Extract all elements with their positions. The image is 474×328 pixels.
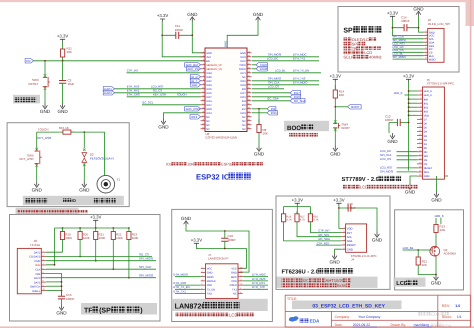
svg-text:IO25: IO25 xyxy=(206,88,212,91)
svg-text:10: 10 xyxy=(202,86,204,89)
svg-text:100nF: 100nF xyxy=(175,28,184,32)
svg-text:100K: 100K xyxy=(132,236,139,240)
svg-text:RXD0: RXD0 xyxy=(239,68,246,71)
svg-text:28: 28 xyxy=(248,98,250,101)
svg-text:6: 6 xyxy=(203,70,204,73)
wire I2C_SCL row xyxy=(142,104,201,106)
svg-text:RXD: RXD xyxy=(207,284,213,287)
wire CLK to SPI_CLK xyxy=(46,268,156,270)
wire R14 to SW4 xyxy=(334,103,336,118)
svg-text:IO34: IO34 xyxy=(206,72,212,75)
svg-text:+3.3V: +3.3V xyxy=(387,11,398,16)
svg-text:GND: GND xyxy=(254,152,265,157)
svg-text:GND: GND xyxy=(206,52,212,55)
svg-text:1: 1 xyxy=(203,50,204,53)
wire LCD_RST row xyxy=(115,88,201,90)
svg-text:5: 5 xyxy=(203,66,204,69)
svg-text:GND: GND xyxy=(40,109,51,114)
svg-text:SPI_MISO: SPI_MISO xyxy=(393,55,407,59)
svg-text:+3.3V: +3.3V xyxy=(90,215,101,220)
capacitor C12 100nF xyxy=(389,122,409,124)
svg-text:29: 29 xyxy=(248,94,250,97)
wire C12 gnd xyxy=(388,123,390,134)
wire rail branch xyxy=(309,207,311,215)
resistor R17 4.7K xyxy=(296,211,298,225)
capacitor C11 100nF xyxy=(162,34,192,36)
svg-text:+3.3V: +3.3V xyxy=(330,74,341,79)
svg-text:LED_A: LED_A xyxy=(424,90,432,93)
svg-text:IO: IO xyxy=(72,198,77,203)
svg-text:+3.3V: +3.3V xyxy=(333,198,344,203)
svg-text:6: 6 xyxy=(202,287,203,290)
svg-text:FT6236U - 2.0: FT6236U - 2.0 xyxy=(282,269,319,276)
svg-text:Sheet:: Sheet: xyxy=(442,315,452,319)
svg-text:GND: GND xyxy=(405,190,416,195)
svg-text:GND: GND xyxy=(253,12,264,17)
sheet border right xyxy=(466,0,474,26)
svg-text:1: 1 xyxy=(420,89,421,92)
svg-text:1: 1 xyxy=(43,250,44,253)
svg-text:EDA·: EDA· xyxy=(431,312,441,317)
svg-text:DAT2: DAT2 xyxy=(34,251,41,254)
svg-text:LED_K: LED_K xyxy=(424,94,432,97)
svg-text:ETH_TX1: ETH_TX1 xyxy=(174,289,187,293)
svg-text:2: 2 xyxy=(343,230,344,233)
svg-text:LCD_CS: LCD_CS xyxy=(380,157,391,161)
svg-text:+3.3V: +3.3V xyxy=(157,13,168,18)
svg-text:7: 7 xyxy=(203,74,204,77)
svg-text:IO2: IO2 xyxy=(242,108,247,111)
svg-text:13: 13 xyxy=(240,270,242,273)
svg-text:4.7K: 4.7K xyxy=(286,219,292,222)
note SPI line1 xyxy=(344,37,348,41)
svg-text:D3: D3 xyxy=(424,135,428,138)
wire gnd2 L xyxy=(227,22,258,48)
label touch key xyxy=(94,198,99,203)
wire LCD_BL to J6 xyxy=(393,55,424,57)
svg-text:BOOT: BOOT xyxy=(342,126,351,130)
capacitor C15 100nF xyxy=(61,291,63,305)
wire CMD to SPI_MOSI xyxy=(46,260,156,262)
svg-text:40MHz: 40MHz xyxy=(369,55,382,60)
wire LCD_CS to J6 xyxy=(393,51,424,53)
svg-text:IO13: IO13 xyxy=(206,112,212,115)
svg-text:GND: GND xyxy=(187,12,198,17)
svg-text:NC: NC xyxy=(206,116,210,119)
block box: FT6236 xyxy=(276,196,390,289)
svg-text:FT6236-2.0-IC-FPC: FT6236-2.0-IC-FPC xyxy=(351,254,377,258)
note ST7789 xyxy=(343,185,347,189)
svg-text:(SPI: (SPI xyxy=(99,307,113,315)
wire ETH_TX1 xyxy=(175,293,201,295)
svg-text:16: 16 xyxy=(419,149,421,152)
svg-text:20: 20 xyxy=(202,126,204,129)
svg-text:+3.3V: +3.3V xyxy=(57,34,68,39)
resistor R23 100K xyxy=(128,228,130,243)
svg-text:4: 4 xyxy=(202,279,203,282)
svg-text:LED_K: LED_K xyxy=(435,214,444,218)
svg-text:11: 11 xyxy=(202,90,204,93)
svg-text:SENSOR_VP: SENSOR_VP xyxy=(206,64,222,67)
svg-text:DAC2: DAC2 xyxy=(104,91,112,95)
transistor Q2 AO3400A xyxy=(435,239,437,245)
net flag LED xyxy=(191,83,201,87)
wire rail branch xyxy=(283,207,285,215)
wire R18 drop xyxy=(284,225,342,241)
svg-text:10: 10 xyxy=(43,288,45,291)
svg-text:35: 35 xyxy=(248,70,250,73)
svg-text:5: 5 xyxy=(202,283,203,286)
note SPI line4 xyxy=(344,51,348,55)
svg-text:D5: D5 xyxy=(424,127,428,130)
ground (J5 b) xyxy=(434,192,439,198)
switch SW4 BOOT xyxy=(334,118,336,133)
svg-text:24: 24 xyxy=(248,114,250,117)
sheet border top xyxy=(0,0,474,2)
svg-text:IO2: IO2 xyxy=(166,163,172,167)
svg-text:IO17: IO17 xyxy=(240,92,246,95)
svg-text:SPI_CLK: SPI_CLK xyxy=(139,265,151,269)
svg-text:1: 1 xyxy=(426,30,427,33)
svg-text:100K: 100K xyxy=(99,236,106,240)
wire rail to pin xyxy=(409,98,417,100)
svg-text:17: 17 xyxy=(419,153,421,156)
ground (Q2) xyxy=(434,275,439,281)
svg-text:03_ESP32_LCD_ETH_SD_KEY: 03_ESP32_LCD_ETH_SD_KEY xyxy=(312,304,385,310)
svg-text:IO32: IO32 xyxy=(206,80,212,83)
net flag ADC_BAT xyxy=(185,63,201,67)
wire SW5 to gnd xyxy=(36,169,38,182)
svg-text:26: 26 xyxy=(248,106,250,109)
svg-text:GND: GND xyxy=(158,125,169,130)
wire SPI_MISO/ETH_TX0 row xyxy=(252,80,319,82)
svg-text:IM0: IM0 xyxy=(424,98,429,101)
svg-text:TXD: TXD xyxy=(207,293,212,296)
svg-text:KEY_USR: KEY_USR xyxy=(153,93,166,97)
wire LED_K xyxy=(405,94,418,96)
svg-text:RD: RD xyxy=(424,151,428,154)
svg-text:11: 11 xyxy=(419,129,421,132)
svg-text:SDA: SDA xyxy=(424,171,430,174)
wire LCD_DC to J6 xyxy=(393,48,424,50)
wire ETH_MDC xyxy=(243,276,268,278)
resistor R22 100K xyxy=(112,228,114,243)
svg-text:D4: D4 xyxy=(424,131,428,134)
svg-text:ADC_CON: ADC_CON xyxy=(186,107,200,111)
svg-text:SENSOR_VN: SENSOR_VN xyxy=(206,68,222,71)
svg-text:IO35: IO35 xyxy=(206,76,212,79)
svg-text:9: 9 xyxy=(240,287,241,290)
svg-text:GND: GND xyxy=(431,198,442,203)
note touch sensitivity xyxy=(17,210,20,213)
svg-text:GND: GND xyxy=(207,272,213,275)
svg-text:IO22: IO22 xyxy=(240,60,246,63)
svg-text:10K: 10K xyxy=(339,93,344,97)
svg-text:0x38: 0x38 xyxy=(337,283,347,288)
wire gnd rail xyxy=(186,226,249,272)
svg-text:33: 33 xyxy=(248,78,250,81)
svg-text:IO21: IO21 xyxy=(240,72,246,75)
svg-text:22: 22 xyxy=(419,174,421,177)
block box: LCD backlight xyxy=(395,210,464,290)
wire LCD_BL xyxy=(403,249,419,251)
wire SW4 gnd xyxy=(334,133,336,145)
ground (ESP32 left) xyxy=(161,119,166,125)
wire DAT2 xyxy=(46,251,63,253)
svg-text:D1: D1 xyxy=(424,143,428,146)
svg-text:SPI: SPI xyxy=(343,28,354,35)
svg-text:NC: NC xyxy=(233,293,237,296)
svg-text:16: 16 xyxy=(202,110,204,113)
svg-text:21: 21 xyxy=(248,126,250,129)
capacitor C14 100nF xyxy=(393,27,419,29)
svg-text:RS: RS xyxy=(424,159,428,162)
svg-text:T1: T1 xyxy=(117,177,121,181)
svg-text:15: 15 xyxy=(202,106,204,109)
net flag EN xyxy=(25,59,33,63)
svg-text:VSS: VSS xyxy=(35,273,40,276)
svg-text:IO5: IO5 xyxy=(242,88,247,91)
svg-text:ETH_CRS: ETH_CRS xyxy=(127,93,140,97)
svg-text:): ) xyxy=(140,307,142,315)
svg-text:9: 9 xyxy=(43,284,44,287)
svg-text:18: 18 xyxy=(419,157,421,160)
svg-text:9: 9 xyxy=(203,82,204,85)
wire SHELL xyxy=(46,290,62,292)
svg-text:CTP_RST: CTP_RST xyxy=(317,241,330,245)
junction rail xyxy=(112,227,114,229)
faint watermark text xyxy=(418,312,422,316)
net flag TXD0 xyxy=(256,63,267,67)
wire 3V3 rail xyxy=(196,246,246,269)
wire DAT1 xyxy=(46,281,62,283)
wire J4 gnd xyxy=(335,249,342,253)
net flag IR_T xyxy=(190,79,200,83)
junction rail xyxy=(95,227,97,229)
svg-text:GND: GND xyxy=(79,188,90,193)
note SPI line2 xyxy=(344,42,348,46)
net flag DAC1 xyxy=(103,87,114,91)
svg-text:LED_K: LED_K xyxy=(394,91,403,95)
net flag ADC_PD xyxy=(186,67,200,71)
svg-text:CD/DAT3: CD/DAT3 xyxy=(29,256,40,259)
svg-text:LCD: LCD xyxy=(360,185,368,190)
svg-text:2: 2 xyxy=(420,93,421,96)
svg-text:34: 34 xyxy=(248,74,250,77)
svg-text:DAT0: DAT0 xyxy=(34,277,41,280)
wire SW5 branch xyxy=(36,132,38,145)
svg-text:3: 3 xyxy=(203,58,204,61)
wire J5 gnd1 xyxy=(410,176,417,184)
svg-text:5: 5 xyxy=(43,267,44,270)
block box: SPI expansion xyxy=(338,7,459,73)
svg-text:NC: NC xyxy=(242,116,246,119)
svg-text:19: 19 xyxy=(419,162,421,165)
resistor R18 4.7K xyxy=(283,211,285,225)
svg-text:6: 6 xyxy=(426,47,427,50)
wire R17 drop xyxy=(297,225,341,237)
svg-text:REV:: REV: xyxy=(442,304,450,308)
svg-text:25: 25 xyxy=(248,110,250,113)
wire +3.3V to R11 xyxy=(62,42,64,46)
wire source gnd xyxy=(435,258,437,275)
svg-text:100K: 100K xyxy=(83,236,90,240)
wire to R14 xyxy=(334,82,336,90)
net flag I2C_SDA xyxy=(290,99,305,103)
svg-text:RXD0: RXD0 xyxy=(260,67,268,71)
svg-text:D7: D7 xyxy=(424,119,428,122)
svg-text:IO27: IO27 xyxy=(206,96,212,99)
wire BOOT flag xyxy=(335,106,347,108)
svg-text:2: 2 xyxy=(43,254,44,257)
svg-text:TITLE:: TITLE: xyxy=(287,297,297,301)
svg-text:27: 27 xyxy=(248,102,250,105)
svg-text:MISO: MISO xyxy=(429,58,436,61)
svg-text:3: 3 xyxy=(426,36,427,39)
svg-text:SPI_MOSI: SPI_MOSI xyxy=(139,257,153,261)
svg-text:100K: 100K xyxy=(65,236,72,240)
net flag IO2 xyxy=(267,107,276,111)
svg-text:+3.3V: +3.3V xyxy=(292,198,303,203)
wire C13 gnd xyxy=(360,208,377,232)
svg-text:10K: 10K xyxy=(263,132,268,136)
svg-text:MDIO: MDIO xyxy=(207,276,214,279)
svg-text:8: 8 xyxy=(43,280,44,283)
net flag IO17 xyxy=(290,91,301,95)
svg-text:IO12: IO12 xyxy=(206,104,212,107)
svg-text:TF: TF xyxy=(84,308,93,315)
svg-text:9: 9 xyxy=(420,121,421,124)
svg-text:J4: J4 xyxy=(351,258,354,262)
svg-text:1.0: 1.0 xyxy=(455,304,460,308)
net flag IO16 xyxy=(290,95,301,99)
resistor R19 100K xyxy=(62,228,64,243)
svg-text:mazhilang: mazhilang xyxy=(414,323,430,327)
wire CTP_INT row xyxy=(127,72,201,74)
wire rail to pin xyxy=(409,110,417,112)
svg-text:22: 22 xyxy=(248,122,250,125)
junction R12 xyxy=(417,249,419,251)
svg-text:GND: GND xyxy=(413,6,424,11)
resistor R20 100K xyxy=(79,228,81,243)
svg-text:TB: TB xyxy=(352,46,357,51)
wire gnd spi xyxy=(419,17,424,33)
svg-text:Your Company: Your Company xyxy=(358,315,381,319)
svg-text:GND: GND xyxy=(32,188,43,193)
svg-text:3: 3 xyxy=(202,274,203,277)
svg-text:I2C_SDA: I2C_SDA xyxy=(318,237,330,241)
wire FT vdd xyxy=(339,206,341,229)
svg-text:2021-09-22: 2021-09-22 xyxy=(353,323,370,327)
IC U6 ESP32-WROVER-E xyxy=(205,48,247,132)
svg-text:GND: GND xyxy=(56,311,67,316)
svg-text:BOOT: BOOT xyxy=(351,105,360,109)
svg-text:VCC: VCC xyxy=(207,267,213,270)
svg-text:10uF: 10uF xyxy=(68,82,75,86)
svg-text:10: 10 xyxy=(240,283,242,286)
svg-text:D6: D6 xyxy=(424,123,428,126)
svg-text:21: 21 xyxy=(419,170,421,173)
svg-text:ADC_PD: ADC_PD xyxy=(187,67,198,71)
svg-text:LCD: LCD xyxy=(229,313,238,318)
svg-text:CLK: CLK xyxy=(35,269,40,272)
wire ETH_CRS xyxy=(243,280,268,282)
wire pullup drop xyxy=(128,243,130,278)
capacitor C3 10uF xyxy=(62,61,64,103)
block box: LAN8720 xyxy=(172,209,273,321)
svg-text:CS: CS xyxy=(424,163,428,166)
svg-text:17: 17 xyxy=(202,114,204,117)
svg-text:IO4: IO4 xyxy=(242,100,247,103)
svg-text:I2C_SDA: I2C_SDA xyxy=(294,99,306,103)
svg-text:4.7K: 4.7K xyxy=(313,219,319,222)
capacitor C13 100nF xyxy=(339,207,360,209)
wire I2C_SDA row xyxy=(252,100,290,102)
wire FT rail xyxy=(296,206,298,207)
svg-text:TX1: TX1 xyxy=(232,288,237,291)
svg-text:TXD0: TXD0 xyxy=(239,64,246,67)
svg-text:GND: GND xyxy=(224,41,228,47)
svg-text:GND: GND xyxy=(347,248,353,251)
svg-text:3: 3 xyxy=(343,234,344,237)
svg-text:31: 31 xyxy=(248,86,250,89)
junction rail xyxy=(62,227,64,229)
svg-text:ST7789V - 2.0: ST7789V - 2.0 xyxy=(342,176,379,183)
svg-text:IM1: IM1 xyxy=(424,102,429,105)
svg-text:36: 36 xyxy=(248,66,250,69)
svg-text:+3.3V: +3.3V xyxy=(191,238,202,243)
wire pullup drop xyxy=(62,243,64,252)
svg-text:AO3400A: AO3400A xyxy=(444,252,457,256)
svg-text:13: 13 xyxy=(419,137,421,140)
wire SWITCH xyxy=(46,285,62,287)
wire SPI_CLK/ETH_MDIO row xyxy=(252,84,319,86)
resistor R12 10K xyxy=(417,250,419,272)
wire TOUCH row xyxy=(127,96,201,98)
svg-text:+3.3V: +3.3V xyxy=(403,74,414,79)
svg-text:GND: GND xyxy=(372,238,383,243)
junction rail xyxy=(79,227,81,229)
junction xyxy=(44,60,46,62)
svg-text:15: 15 xyxy=(419,145,421,148)
svg-text:NC: NC xyxy=(206,120,210,123)
junction D2 xyxy=(83,131,85,133)
ground (SW5) xyxy=(34,182,39,188)
svg-text:10: 10 xyxy=(419,125,421,128)
svg-text:9: 9 xyxy=(426,57,427,60)
svg-text:OLED_LCD_SPI: OLED_LCD_SPI xyxy=(428,22,451,26)
gray highlight tiles xyxy=(13,95,40,104)
svg-text:IO19: IO19 xyxy=(240,80,246,83)
svg-text:40: 40 xyxy=(248,50,250,53)
wire EN net xyxy=(34,60,206,62)
svg-text:Company:: Company: xyxy=(335,315,351,319)
resistor R21 100K xyxy=(95,228,97,243)
svg-text:2: 2 xyxy=(426,33,427,36)
svg-text:I2C_SCL: I2C_SCL xyxy=(142,101,154,105)
svg-text:ETH_MDIO: ETH_MDIO xyxy=(174,273,189,277)
svg-text:PESD3V3L1BA-N: PESD3V3L1BA-N xyxy=(90,156,114,160)
wire R16 drop xyxy=(310,225,341,233)
svg-text:GND: GND xyxy=(231,272,237,275)
svg-text:DAT1: DAT1 xyxy=(34,281,41,284)
ground (J4) xyxy=(332,253,337,259)
wire txd0 xyxy=(252,64,256,66)
wire rail to pin xyxy=(409,102,417,104)
svg-text:IM3: IM3 xyxy=(424,111,429,114)
svg-text:NC: NC xyxy=(242,120,246,123)
wire pullup drop xyxy=(95,243,97,261)
